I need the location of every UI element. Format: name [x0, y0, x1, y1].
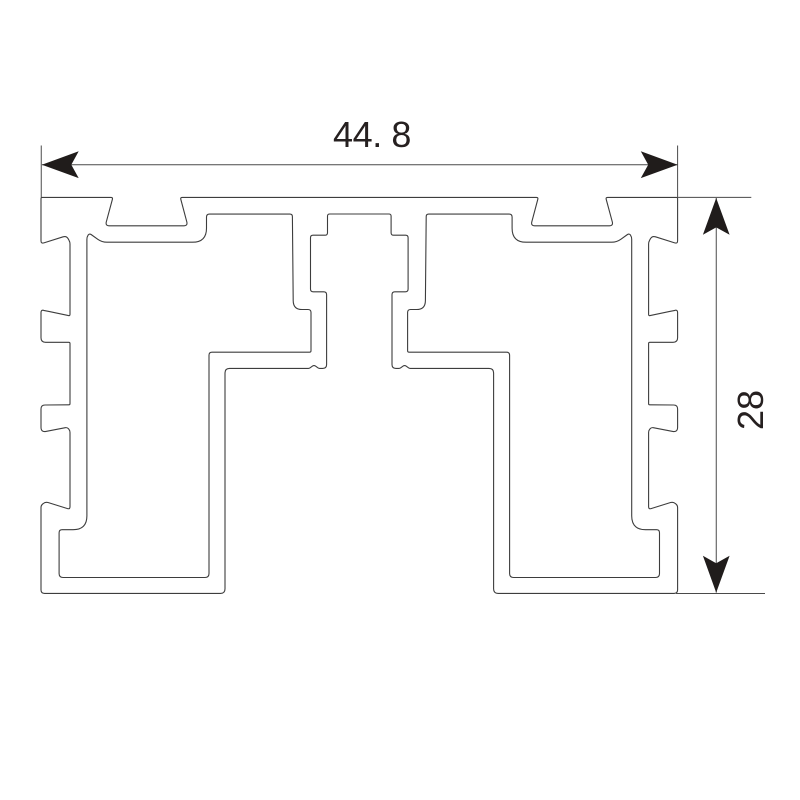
extension line right (width dim) — [677, 146, 679, 198]
dimension line 28 — [715, 198, 717, 593]
extension line bottom (height dim) — [676, 593, 765, 595]
dimension line 44.8 — [42, 164, 678, 166]
arrowhead bottom of 28 — [703, 556, 730, 593]
right inner cavity — [408, 214, 660, 577]
arrowhead right of 44.8 — [641, 151, 678, 178]
svg-text:44. 8: 44. 8 — [333, 114, 411, 155]
svg-text:28: 28 — [730, 390, 771, 430]
arrowhead top of 28 — [703, 198, 730, 235]
left inner cavity — [59, 214, 311, 577]
profile outer contour (extrusion cross-section with T-slots, side fingers and feet) — [41, 197, 678, 593]
extension line left (width dim) — [40, 146, 42, 198]
extension line top (height dim) — [678, 196, 752, 198]
arrowhead left of 44.8 — [42, 151, 79, 178]
